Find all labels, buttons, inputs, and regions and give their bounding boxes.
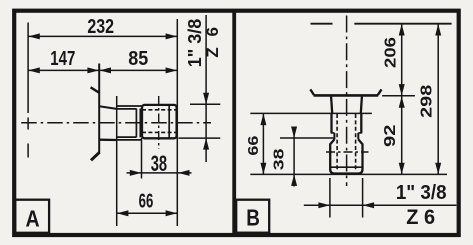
arrow dia left (318, 202, 330, 208)
shaft taper bottom (99, 139, 117, 142)
flange lip right (378, 89, 382, 95)
wall / mounting face (98, 64, 100, 153)
arrow 66 right (166, 210, 178, 216)
arrow dia up (203, 138, 209, 150)
arrow 147 left (28, 67, 40, 73)
arrow 38 left (130, 170, 142, 176)
shaft sleeve bottom outer (117, 139, 142, 141)
dim 298 line (437, 24, 439, 175)
arrow 232 right (166, 33, 178, 39)
spline dia dim line (304, 204, 457, 206)
wall break diagonal top (91, 87, 100, 93)
shaft bottom inner (117, 136, 137, 138)
svg-text:85: 85 (128, 48, 148, 70)
spline root hidden right (355, 114, 357, 170)
arrow dia right (363, 202, 375, 208)
extension line shaft end (176, 19, 178, 226)
shaft sleeve top outer (117, 105, 142, 107)
dim 92 line (401, 96, 403, 174)
center mark vertical at spline (158, 96, 160, 149)
spline root hidden line bottom (142, 131, 177, 133)
boss side left (331, 97, 332, 114)
flange extension line (382, 95, 415, 97)
spline outline (330, 139, 362, 173)
dim 38 line (127, 172, 192, 174)
top reference line (311, 23, 333, 25)
label box B (236, 200, 269, 233)
groove neck left (333, 133, 335, 140)
extension line left reference (27, 23, 29, 114)
shaft side left (330, 113, 332, 132)
arrow 92 down (399, 163, 405, 175)
dim 66 line (262, 113, 264, 174)
bottom extension line (250, 173, 447, 175)
svg-text:38: 38 (270, 148, 287, 170)
svg-text:66: 66 (244, 136, 261, 156)
arrow 38 top (291, 127, 297, 139)
ext line dia top (190, 103, 220, 105)
arrow 298 up (435, 24, 441, 36)
arrow 298 down (435, 163, 441, 175)
groove wall left (135, 109, 137, 138)
svg-text:66: 66 (139, 190, 154, 212)
vertical dim line (shaft dia) (205, 15, 207, 162)
dim 38 line (293, 127, 295, 187)
dim 147/85 line (28, 69, 177, 71)
svg-text:1" 3/8: 1" 3/8 (396, 181, 447, 204)
arrow 232 left (28, 33, 40, 39)
svg-text:92: 92 (381, 125, 398, 147)
svg-text:298: 298 (417, 85, 435, 118)
flange face line (314, 94, 379, 97)
label box A (15, 200, 49, 233)
arrow 206 up (399, 24, 405, 36)
arrow 38 bottom (291, 174, 297, 186)
arrow 206 down (399, 84, 405, 96)
svg-text:1" 3/8: 1" 3/8 (185, 19, 205, 68)
svg-text:Z 6: Z 6 (406, 205, 435, 229)
extension line hub face (116, 96, 118, 226)
boss end face / ext line 66 (250, 112, 372, 114)
center mark horizontal at spline (326, 151, 369, 153)
arrow 85 right (166, 67, 178, 73)
arrow 66 left (117, 210, 128, 216)
ext line dia bottom (179, 137, 221, 139)
shaft taper top (99, 106, 117, 109)
dim 232 line (28, 35, 177, 37)
arrow 92 up (399, 96, 405, 108)
groove shoulder left (331, 132, 335, 134)
groove wall right (139, 109, 141, 138)
shaft side right (360, 113, 362, 132)
centerline vertical (shaft axis) (346, 16, 348, 187)
svg-text:147: 147 (50, 47, 75, 70)
panel divider (232, 11, 236, 235)
spline root hidden left (336, 114, 338, 170)
spline chamfer line (330, 166, 362, 168)
svg-text:38: 38 (151, 151, 167, 176)
svg-text:206: 206 (381, 37, 399, 68)
center mark vertical at left reference (27, 118, 29, 130)
groove shoulder right (358, 132, 362, 134)
svg-text:A: A (25, 206, 39, 232)
centerline (shaft axis, horizontal) (21, 122, 211, 124)
spline root hidden line top (142, 109, 177, 111)
extension line spline start (141, 138, 143, 179)
svg-text:232: 232 (87, 15, 114, 37)
dim 206 line (401, 24, 403, 96)
boss side right (361, 97, 362, 114)
svg-text:B: B (246, 206, 260, 231)
arrow dia down (203, 93, 209, 105)
spline dia ext right (362, 178, 364, 218)
flange lip left (310, 89, 314, 95)
wall break diagonal bottom (91, 152, 100, 160)
groove neck right (357, 133, 359, 140)
spline dia ext left (329, 178, 331, 218)
arrow 66 up (260, 114, 266, 126)
groove extension line (280, 137, 335, 139)
spline chamfer line (168, 105, 170, 138)
dim 66 line (117, 212, 178, 214)
arrow 147 right (87, 67, 99, 73)
arrow 66 down (260, 163, 266, 175)
spline block (142, 105, 177, 138)
svg-text:Z 6: Z 6 (203, 24, 222, 58)
shaft top inner (117, 108, 137, 110)
arrow 85 left (100, 67, 112, 73)
arrow 38 right (178, 170, 190, 176)
